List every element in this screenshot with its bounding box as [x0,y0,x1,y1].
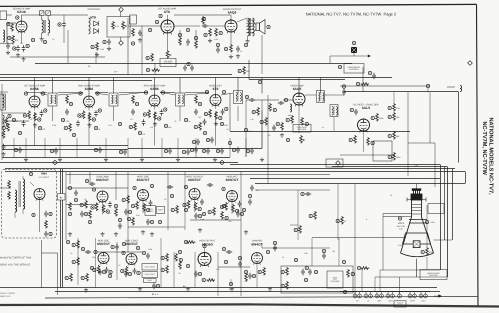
resistor R row2 [69,123,72,132]
resistor R vo 2 [176,205,179,214]
callout c [342,260,345,263]
wire HV left stub [0,187,11,189]
wire bus drop x89 [88,77,90,96]
callout c [184,185,187,188]
callout c [244,128,247,131]
svg-text:.1: .1 [352,130,354,133]
wire V13 vert output drop [194,200,196,213]
resistor R r3 right 1 [314,211,317,220]
capacitor C row2 [18,147,22,153]
callout c [371,116,374,119]
callout c [246,149,249,152]
wire row4 h1 [96,251,143,253]
wire x161 drop [160,238,162,288]
wire row2 drop x45 [44,138,46,157]
page top edge border [0,4,477,6]
callout c [150,184,153,187]
vert hold box [145,206,156,216]
rail row3 [128,226,185,228]
svg-text:2.2K: 2.2K [396,107,401,110]
callout c [81,276,84,279]
callout c [92,188,95,191]
hor drive box [142,264,158,271]
callout c [143,113,146,116]
resistor R video 3 [281,122,284,131]
wire x174 drop [173,252,175,288]
svg-text:.05: .05 [84,198,87,201]
wire row3 h3 [190,219,241,221]
ground video [280,133,284,137]
callout c [229,282,232,285]
callout 26 [26,44,29,47]
capacitor C7 coupling [62,21,66,27]
wire row2 link a [26,92,47,94]
capacitor C13 coupling [202,24,208,28]
capacitor C r4 in [85,250,91,254]
resistor R12 audio [151,69,160,72]
wire V8 video det cathode [215,106,217,110]
svg-text:NC-TV7M, NC-TV7W: NC-TV7M, NC-TV7W [481,122,487,176]
wire bus drop x113.5 [113,77,115,93]
svg-text:220: 220 [150,126,153,129]
callout c [24,92,27,95]
capacitor C interstage x67 [65,109,69,115]
wire row2 link e [160,92,175,94]
wire tube drop x154.5 [154,112,156,146]
terminal pin [380,294,384,298]
capacitor C grp 2 [308,269,312,275]
wire flyback bottom [22,209,24,214]
callout c [425,220,428,223]
coil L vd peak [290,104,292,112]
arrow terminal [365,55,370,57]
resistor R dcr 1 [354,135,357,144]
resistor R8 det [132,28,135,37]
resistor R V7 3rd video IF cathode [154,112,157,121]
resistor R interstage x133 [132,95,135,104]
speaker LS1 [256,23,260,31]
resistor R r4 g [70,273,73,281]
svg-text:NATIONAL MODELS NC-TV7,: NATIONAL MODELS NC-TV7, [488,118,494,196]
ground extra x232 [230,287,234,291]
callout c [91,206,94,209]
terminal pin [391,294,395,298]
callout c [236,209,239,212]
resistor R6 ratio (potentiometer) [122,21,125,29]
ground rail x178 [176,158,180,162]
resistor R left col [5,117,8,126]
ground C9 [107,47,111,51]
svg-text:CONTROL: CONTROL [349,68,360,71]
connector diamond A [53,160,58,165]
resistor R V14 hor osc a [97,265,100,273]
wire v x230 [229,93,231,131]
capacitor C11 det [138,30,142,36]
terminal pin [369,294,373,298]
capacitor C h1 [238,261,242,267]
callout c [388,106,391,109]
svg-text:NATIONAL NC-TV7, NC-TV7M, NC-T: NATIONAL NC-TV7, NC-TV7M, NC-TV7W Page 2 [306,12,397,17]
svg-text:RATIO DET: RATIO DET [88,8,101,11]
wire row2 link d [119,92,148,94]
wire x185 drop [184,172,186,230]
wire x168 drop [167,172,169,230]
svg-text:.047: .047 [244,280,248,283]
callout c [179,258,182,261]
capacitor C r3 right [305,192,311,196]
svg-text:JOHN F. RIDER: JOHN F. RIDER [0,292,15,295]
capacitor C row2 [168,148,172,154]
wire bus drop x320.5 [320,77,322,93]
callout c [155,20,158,23]
capacitor C extra [124,209,128,215]
callout c [198,102,201,105]
callout c [72,260,75,263]
callout c [158,117,161,120]
callout c [135,102,138,105]
capacitor C s3 [248,199,252,205]
capacitor C b1 [183,65,187,71]
bus line mid B [5,171,465,173]
vert hold box 2 [157,207,165,214]
wire right v x447 [447,167,449,278]
wire row2 drop x60 [59,138,61,157]
ground sync [100,232,104,236]
terminal 6.3V [419,294,423,298]
svg-text:6AL5: 6AL5 [362,106,370,110]
callout c [122,242,125,245]
wire row3 right b [255,189,330,191]
callout c [93,268,96,271]
capacitor C r4 r1 [226,250,232,254]
coil L1b input choke 2 [3,115,5,127]
capacitor C vd 2 [278,101,284,105]
wire can drop x113.5 [113,106,115,121]
callout c [161,268,164,271]
callout c [225,216,228,219]
wire T1 pri bottom [41,33,43,37]
terminal arrow [434,295,442,298]
wire bus drop x262 [261,77,263,93]
callout c [186,28,189,31]
svg-text:6SN7GT: 6SN7GT [97,242,110,246]
wire row3 h2 [66,204,98,206]
capacitor C4 sound [6,43,10,49]
capacitor C r4 mid [115,244,119,250]
capacitor C rail extra [206,148,210,154]
capacitor C grp 1 [301,269,305,275]
resistor R video 4 [265,117,268,126]
wire v x128 long [127,18,129,74]
capacitor C hd [146,253,150,259]
svg-text:CONT: CONT [158,209,164,212]
wire v x142 [141,26,143,74]
callout 38 [224,47,227,50]
callout 30 [131,42,134,45]
wire x180 [179,30,181,37]
resistor R row2 [134,122,137,131]
callout c [178,33,181,36]
callout c [258,270,261,273]
wire row3 h1 [66,187,128,189]
wire x90 drop [89,172,91,183]
capacitor C V7 3rd video IF screen [142,119,146,125]
wire right net h2 [408,142,435,144]
wire V5 to T3 [40,93,47,95]
wire row2 drop x14 [13,138,15,157]
capacitor C dcr [354,109,358,115]
wire right v x440 [440,165,442,271]
wire V3 cathode to volume [167,33,169,50]
callout c [38,118,41,121]
coil L antenna [460,86,462,92]
wire bus drop x52.5 [52,77,54,93]
wire C7 top [63,15,65,21]
wire V4 to OPT [237,18,247,22]
wire v x465 [465,172,467,184]
svg-text:6T8: 6T8 [164,10,170,14]
capacitor C rail extra [194,147,198,153]
callout c [186,264,189,267]
wire callout stub [427,88,429,93]
ratio det diode 2 [94,29,99,34]
trimmer box C-B [46,11,51,16]
tube V6 2nd video IF [84,96,95,108]
resistor R V13 vert output b [194,202,197,211]
callout 23 [16,16,19,19]
capacitor C b+ row3 [250,185,254,191]
wire x338 drop [337,184,339,240]
tube V16 hor output 6BG6G [198,252,211,266]
bus stub upper left [0,80,152,82]
callout 35 [219,31,222,34]
ratio det diode 1 [94,21,99,26]
wire right net top [344,91,458,93]
capacitor C video 3 [272,125,276,131]
ground extra x246 [244,230,248,234]
terminal pin [413,294,417,298]
wire video to CRT [255,183,465,185]
capacitor C rail extra [250,148,254,154]
wire x312 drop [311,238,313,266]
callout c [260,120,263,123]
OPT core rung [246,22,254,24]
wire fuse right [354,55,365,57]
callout c [119,150,122,153]
bus B+ vertical A [60,169,62,288]
wire V5 1st video IF cathode [34,107,36,111]
resistor R s1 [69,202,72,211]
capacitor C V7 3rd video IF bypass [160,109,164,115]
resistor R r3 right 2 [299,225,302,234]
wire left edge h [7,22,16,24]
svg-text:6AU6: 6AU6 [17,10,26,14]
wire flyback to rect [30,182,34,186]
page bottom dark edge [0,304,499,306]
schematic bottom border [45,297,478,299]
wire sound gnd rail [10,56,105,58]
wire damper rail [262,247,330,249]
callout c [388,155,391,158]
capacitor C extra [124,271,128,277]
svg-text:.05: .05 [174,120,177,123]
wire fuse left [330,55,354,57]
wire input box lead [7,14,13,16]
callout c [194,36,197,39]
callout c [118,218,121,221]
crt net box [428,204,444,214]
callout c [90,266,93,269]
wire tube drop x89 [88,112,90,146]
wire x78 drop [77,238,79,285]
capacitor C s1 [74,190,78,196]
svg-text:6AQ5: 6AQ5 [293,87,302,91]
capacitor C extra [236,211,240,217]
wire x117 drop [116,242,118,280]
wire can drop x238 [237,106,239,121]
svg-text:.05: .05 [30,118,33,121]
callout c [68,186,71,189]
callout c [286,138,289,141]
ground C4 [6,51,10,55]
wire diamond C lead [120,12,122,17]
resistor R V5 1st video IF cathode [34,113,37,122]
svg-text:CONTROL: CONTROL [396,303,404,306]
callout 27 [58,23,61,26]
capacitor C vo [167,185,173,189]
bus line mid A2 [230,164,440,166]
wire x41 drop [41,240,43,288]
callout c [171,208,174,211]
terminal VERT [408,294,412,298]
callout c [43,40,46,43]
wire right v x452 [452,169,454,241]
svg-text:B + +: B + + [152,293,159,296]
callout c [44,109,47,112]
wire damper stub [261,243,263,248]
wire right v x444 [444,167,446,241]
callout c [92,118,95,121]
resistor R7 ratio [96,42,99,51]
capacitor C5 sound [16,45,20,51]
capacitor C HV 1 [44,211,48,217]
wire row4 h2 [218,266,250,268]
tube V10 DC restorer [357,119,369,132]
CRT deflection yoke [403,233,431,248]
bus line mid A [5,168,455,170]
resistor R row2 [7,123,10,132]
wire row2 drop x77 [76,138,78,157]
svg-text:.05: .05 [164,198,167,201]
capacitor C sync in [89,182,95,186]
callout c [142,251,145,254]
wire row2 drop x178 [177,138,179,157]
svg-text:HOR. DRIVE: HOR. DRIVE [145,265,156,268]
callout c [79,92,82,95]
wire x70 drop [69,172,71,184]
svg-text:2.2K: 2.2K [192,241,197,244]
callout c [128,210,131,213]
wire V13b hor AFC drop [231,202,233,215]
resistor R x2 [195,40,198,49]
callout c [184,118,187,121]
callout c [78,114,81,117]
terminal pin [358,294,362,298]
svg-text:100: 100 [20,42,23,45]
wire R2 bottom [12,43,14,45]
hor box 3 [144,279,157,283]
wire to yoke [312,237,406,239]
wire V8 to trap [221,93,233,95]
callout c [342,85,345,88]
callout c [61,118,64,121]
callout 34 [204,33,207,36]
horizontal control box [344,64,364,74]
svg-text:8: 8 [366,218,367,221]
wire can drop x52.5 [52,106,54,121]
resistor R row2 [199,122,202,131]
ion trap ring B [409,222,427,224]
resistor R damper [263,267,266,275]
wire bus drop x299 [298,77,300,96]
svg-text:6W4GT: 6W4GT [251,242,262,246]
wire V11 sync amp drop [102,202,104,215]
callout c [122,198,125,201]
ground extra x86 [84,288,88,292]
callout c [164,124,167,127]
wire damper down [256,264,258,288]
IF transformer T4 2nd IF can [109,93,118,106]
tube V4 audio output 6AQ5 [225,20,237,33]
callout 36 [202,17,205,20]
wire V6 to T4 [95,93,108,95]
resistor R11 audio [151,53,154,62]
callout c [232,148,235,151]
IF transformer L peaking 2 [330,105,338,117]
resistor R14 grid [209,28,212,37]
svg-text:20: 20 [390,194,392,197]
wire V1 plate to T1 [22,14,41,16]
resistor R V11 sync amp a [95,203,98,212]
svg-text:100K: 100K [396,156,401,159]
callout c [66,240,69,243]
callout c [242,208,245,211]
resistor R17 cathode [230,44,233,53]
callout c [18,131,21,134]
ground C5 [16,53,20,57]
callout c [102,270,105,273]
rail row2 left B [2,149,128,151]
capacitor C row2 [54,148,58,154]
wire V12 vert osc drop [142,201,144,214]
svg-text:.068: .068 [304,252,308,255]
svg-text:1.5M: 1.5M [430,221,435,224]
wire V9 to peaking [305,94,316,96]
callout c [14,148,17,151]
tube V18 HV rectifier [34,189,45,201]
capacitor C x2 [216,47,220,53]
bus line bottom B [55,291,440,293]
callout c [122,251,125,254]
tube V12 vert osc [138,190,149,202]
coil T1 secondary [48,20,50,33]
wire fuse to bus [329,56,331,63]
resistor R V8 video det grid [209,109,212,118]
svg-text:6SN7GT: 6SN7GT [137,178,150,182]
resistor R r4 in [77,240,80,249]
callout c [31,38,34,41]
wire yoke drop B [374,277,376,292]
